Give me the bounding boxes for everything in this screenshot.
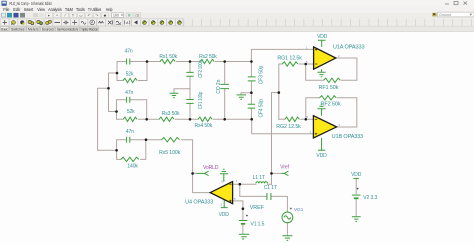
svg-text:Help: Help: [106, 7, 113, 12]
svg-text:Tools: Tools: [76, 7, 85, 12]
svg-text:Ground: Ground: [439, 13, 451, 17]
svg-text:U4 OPA333: U4 OPA333: [185, 200, 213, 206]
svg-text:Sources: Sources: [42, 28, 54, 32]
svg-text:Vref: Vref: [280, 164, 289, 170]
svg-text:CF1 100p: CF1 100p: [198, 91, 204, 109]
svg-text:VDD: VDD: [316, 153, 327, 159]
svg-text:Rs4 50k: Rs4 50k: [194, 123, 212, 129]
svg-text:View: View: [37, 7, 46, 12]
svg-text:CF2 100p: CF2 100p: [198, 60, 204, 78]
svg-text:Spice Macros: Spice Macros: [81, 28, 98, 32]
svg-text:U1A OPA333: U1A OPA333: [333, 45, 365, 51]
svg-text:VDD: VDD: [317, 34, 328, 40]
svg-text:CF3 50p: CF3 50p: [258, 65, 264, 84]
svg-text:52k: 52k: [126, 72, 134, 78]
svg-text:52k: 52k: [127, 109, 135, 115]
svg-text:TI Utilities: TI Utilities: [88, 7, 101, 12]
svg-text:Basic: Basic: [1, 27, 8, 31]
svg-text:/: /: [65, 14, 66, 18]
svg-text:Rx5 100k: Rx5 100k: [159, 150, 181, 156]
svg-text:RG2 12.5k: RG2 12.5k: [276, 124, 301, 130]
svg-text:Rs1 50k: Rs1 50k: [159, 54, 177, 60]
svg-text:Semiconductors: Semiconductors: [57, 28, 79, 32]
svg-text:47n: 47n: [126, 129, 134, 135]
svg-text:V2 3.3: V2 3.3: [363, 195, 377, 201]
svg-text:Analysis: Analysis: [48, 7, 62, 12]
svg-text:C1 1T: C1 1T: [264, 185, 277, 191]
svg-text:Switches: Switches: [11, 28, 25, 32]
svg-text:+: +: [56, 14, 58, 18]
svg-text:RF1 50k: RF1 50k: [319, 85, 339, 91]
svg-text:CF4 50p: CF4 50p: [258, 99, 264, 118]
svg-text:VDD: VDD: [219, 212, 230, 218]
svg-text:◲: ◲: [135, 14, 139, 18]
svg-text:L1 1T: L1 1T: [253, 175, 265, 181]
svg-text:RLD_No Comp - Schematic Editor: RLD_No Comp - Schematic Editor: [10, 1, 53, 6]
svg-text:Rs2 50k: Rs2 50k: [199, 54, 217, 60]
svg-text:47n: 47n: [125, 49, 133, 55]
svg-text:VoRLD: VoRLD: [203, 165, 219, 171]
svg-text:▸: ▸: [48, 14, 50, 18]
svg-text:Edit: Edit: [13, 7, 20, 12]
svg-text:140k: 140k: [127, 164, 138, 170]
svg-text:▭: ▭: [79, 14, 83, 18]
svg-text:T&M: T&M: [65, 7, 73, 12]
svg-text:V1 1.5: V1 1.5: [250, 222, 264, 228]
svg-text:47n: 47n: [125, 90, 133, 96]
svg-text:VDD: VDD: [351, 172, 362, 178]
svg-text:Insert: Insert: [24, 7, 34, 12]
svg-text:VREF: VREF: [250, 205, 264, 211]
svg-text:Meters: Meters: [28, 28, 39, 32]
svg-text:U1B OPA333: U1B OPA333: [332, 134, 364, 140]
svg-text:VG1: VG1: [294, 207, 304, 212]
svg-text:RF2 50k: RF2 50k: [321, 102, 342, 108]
svg-text:File: File: [3, 7, 10, 12]
svg-text:Rs3 50k: Rs3 50k: [162, 111, 180, 117]
svg-text:CO 2n: CO 2n: [216, 79, 222, 93]
svg-text:RG1 12.5k: RG1 12.5k: [277, 56, 302, 62]
svg-text:100: 100: [113, 13, 119, 17]
